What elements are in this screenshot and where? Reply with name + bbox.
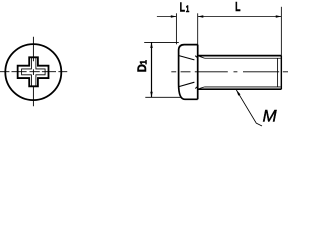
svg-text:L: L xyxy=(180,1,186,15)
svg-text:1: 1 xyxy=(186,4,190,14)
svg-text:L: L xyxy=(235,0,241,14)
svg-text:1: 1 xyxy=(138,60,148,65)
svg-text:M: M xyxy=(263,107,278,126)
